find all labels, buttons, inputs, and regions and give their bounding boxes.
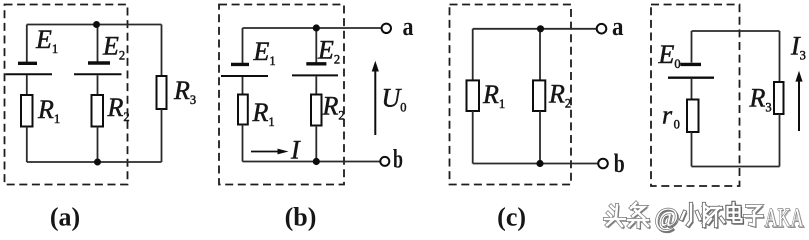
- wire E2 to R2 (b): [315, 77, 317, 95]
- svg-text:a: a: [612, 12, 624, 41]
- caption (b): [285, 203, 317, 232]
- wire R2 bottom (b): [315, 126, 317, 162]
- label a (b): [403, 12, 414, 41]
- caption (a): [50, 203, 80, 232]
- wire R3 bottom (a): [161, 109, 163, 162]
- node top junction (c): [537, 25, 544, 32]
- label I (b): [290, 136, 301, 165]
- wire top (b): [243, 27, 382, 29]
- wire bottom (a): [27, 161, 162, 163]
- resistor R1 (a): [21, 95, 33, 127]
- label r0 (d): [662, 101, 680, 132]
- label R1 (a): [37, 95, 60, 126]
- label E1 (b): [253, 37, 276, 68]
- terminal a (b): [382, 24, 391, 33]
- watermark char zi shadow/halo/core: [745, 206, 763, 227]
- wire R2 bottom (a): [97, 127, 99, 163]
- label R2 (a): [107, 93, 130, 124]
- wire E1 to R1 (b): [242, 77, 244, 95]
- wire E2 to R2 (a): [97, 75, 99, 95]
- battery E1 (b): [221, 64, 268, 76]
- wire top (c): [473, 28, 597, 30]
- arrow I (b): [251, 149, 289, 155]
- node bottom junction (a): [94, 159, 101, 166]
- wire E0 branch upper (d): [691, 31, 693, 63]
- wire R1 bottom (a): [26, 127, 28, 163]
- svg-text:I: I: [290, 136, 301, 165]
- watermark char tiao shadow/halo/core: [628, 203, 649, 229]
- terminal b (b): [380, 157, 389, 166]
- label R3 (d): [749, 84, 772, 115]
- watermark char chen shadow/halo/core: [704, 204, 725, 228]
- wire R2 bottom (c): [539, 111, 541, 164]
- label a (c): [612, 12, 624, 41]
- svg-text:(b): (b): [285, 203, 317, 232]
- wire R1 bottom (c): [472, 111, 474, 164]
- wire R3 bottom (d): [779, 114, 781, 167]
- watermark char xiao shadow/halo/core: [682, 204, 702, 227]
- resistor R3 (a): [157, 76, 167, 109]
- battery E2 (a): [74, 63, 122, 74]
- wire E1 branch upper (b): [242, 28, 244, 63]
- resistor r0: [687, 100, 699, 133]
- wire top (a): [27, 24, 162, 26]
- label R1 (c): [482, 80, 505, 111]
- label U0 (b): [382, 84, 407, 115]
- resistor R2 (a): [92, 95, 104, 127]
- svg-text:AKA: AKA: [765, 204, 804, 233]
- label I3 (d): [790, 32, 806, 63]
- wire E1 branch upper (a): [26, 25, 28, 63]
- resistor R2 (c): [533, 80, 545, 111]
- label R1 (b): [252, 98, 275, 129]
- wire E2 branch upper (b): [315, 28, 317, 63]
- wire r0 bottom: [691, 132, 693, 167]
- label E0 (d): [658, 40, 681, 71]
- svg-text:(a): (a): [50, 203, 80, 232]
- label R2 (b): [322, 92, 345, 123]
- node bottom junction (c): [536, 160, 543, 167]
- label R2 (c): [548, 80, 571, 111]
- label E1 (a): [35, 25, 58, 56]
- arrow U0 (b): [372, 61, 379, 135]
- terminal b (c): [598, 159, 608, 169]
- wire E2 branch upper (a): [97, 25, 99, 62]
- watermark char tou shadow/halo/core: [605, 205, 626, 228]
- node top junction (b): [313, 24, 320, 31]
- battery E2 (b): [292, 64, 338, 76]
- resistor R2 (b): [311, 95, 322, 126]
- wire R3 branch upper (a): [161, 25, 163, 77]
- wire R2 branch upper (c): [539, 29, 541, 81]
- dashed box (a): [5, 5, 128, 185]
- wire R1 bottom (b): [242, 125, 244, 162]
- label R3 (a): [173, 76, 196, 107]
- wire bottom (b): [243, 161, 381, 163]
- node bottom junction (b): [313, 158, 320, 165]
- wire bottom (d): [692, 166, 780, 168]
- wire top (d): [692, 30, 780, 32]
- caption (c): [497, 203, 526, 232]
- dashed box (b): [219, 5, 344, 185]
- wire bottom (c): [473, 163, 598, 165]
- label b (c): [614, 149, 625, 178]
- watermark char dian shadow/halo/core: [728, 203, 743, 223]
- label b (b): [393, 145, 403, 174]
- wire E0 to r0: [691, 79, 693, 100]
- svg-text:(c): (c): [497, 203, 526, 232]
- battery E1: [6, 63, 53, 74]
- resistor R3 (d): [774, 82, 784, 114]
- node top junction (a): [93, 21, 100, 28]
- resistor R1 (c): [467, 80, 480, 111]
- terminal a (c): [597, 24, 607, 34]
- svg-text:b: b: [614, 149, 625, 178]
- dashed box (d): [651, 5, 740, 187]
- wire E1 to R1: [26, 75, 28, 95]
- battery E0: [668, 64, 714, 77]
- dashed box (c): [450, 5, 572, 185]
- wire R3 branch upper (d): [779, 31, 781, 82]
- label E2 (a): [102, 32, 125, 63]
- wire R1 branch upper (c): [472, 29, 474, 81]
- arrow I3 (d): [795, 71, 802, 131]
- svg-text:@: @: [655, 203, 679, 232]
- resistor R1 (b): [238, 95, 248, 125]
- svg-text:a: a: [403, 12, 414, 41]
- label E2 (b): [317, 36, 340, 67]
- svg-text:b: b: [393, 145, 403, 174]
